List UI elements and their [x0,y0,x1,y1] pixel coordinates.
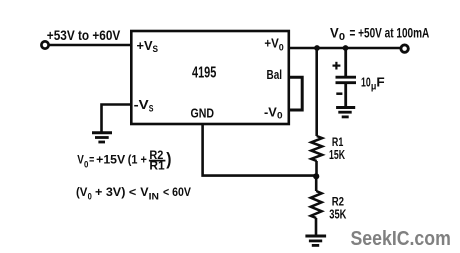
wire +VO to output terminal [289,47,401,50]
ground at capacitor [336,108,355,117]
svg-text:S: S [149,103,154,114]
svg-text:+ 3V) <: + 3V) < [95,185,136,199]
pin label -VS [134,97,154,114]
resistor R2 [311,176,322,235]
svg-text:): ) [166,149,171,169]
resistor R1 [311,136,322,176]
svg-text:IN: IN [149,192,159,202]
label VO = +50V at 100mA [330,24,429,43]
capacitor C1 lead top [344,48,347,76]
annotation equation (VO + 3V) < VIN < 60V [76,185,191,202]
svg-text:F: F [376,75,384,90]
svg-text:+15V: +15V [96,153,125,167]
pin label +VO [264,36,283,54]
svg-text:+V: +V [264,36,279,51]
svg-text:(1 +: (1 + [128,153,147,167]
regulator U1 4195 box [131,31,288,124]
svg-text:GND: GND [191,106,215,121]
watermark SeekIC.com [351,228,451,250]
svg-text:0: 0 [279,42,284,53]
label R1 15K [329,135,345,162]
svg-text:S: S [153,44,159,55]
svg-text:=: = [89,153,94,167]
svg-text:SeekIC.com: SeekIC.com [351,228,451,250]
svg-text:4195: 4195 [192,65,216,82]
output terminal VO [401,45,408,52]
svg-text:-V: -V [264,104,277,119]
node junction on output at R1 branch [314,45,320,51]
ground at -VS [92,133,112,142]
label 10uF [361,75,385,93]
node junction on output at capacitor branch [343,45,349,51]
svg-text:10: 10 [361,75,371,90]
svg-text:0: 0 [84,160,88,170]
svg-text:V: V [77,153,84,167]
annotation equation VO = +15V (1 + R2/R1) [77,148,171,172]
svg-text:-V: -V [134,97,149,112]
svg-text:+V: +V [137,38,153,53]
label R2 35K [329,195,347,222]
svg-text:= +50V at 100mA: = +50V at 100mA [350,24,430,40]
svg-text:V: V [140,185,148,199]
capacitor C1 lead bottom [344,84,347,107]
wire GND pin to R1 R2 node [203,124,316,176]
svg-text:Bal: Bal [267,67,283,82]
svg-text:< 60V: < 60V [163,185,191,199]
pin label Bal [267,67,283,82]
capacitor C1 plus sign [333,62,341,70]
ground at R2 [305,236,326,245]
node junction R1 R2 GND [313,173,319,179]
svg-text:R1: R1 [149,158,165,172]
pin label GND [191,106,215,121]
pin label +VS [137,38,159,55]
svg-text:(V: (V [76,185,87,199]
wire output node down to R1 [315,48,318,136]
capacitor C1 plates [336,77,357,83]
capacitor C1 minus sign [336,92,342,95]
pin label -VO [264,104,283,121]
svg-text:15K: 15K [329,147,345,162]
svg-text:0: 0 [88,192,92,202]
svg-text:35K: 35K [329,206,347,221]
svg-text:0: 0 [339,32,346,43]
svg-text:0: 0 [277,110,283,121]
wire input to +VS [49,44,132,47]
svg-text:+53V to +60V: +53V to +60V [47,27,121,43]
input terminal VIN [41,41,48,48]
wire Bal to -VO bracket [289,77,303,110]
wire -VS to ground [102,105,133,133]
label +53V to +60V [47,27,121,43]
